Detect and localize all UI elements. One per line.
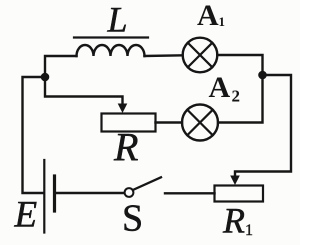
node: right junction dot bbox=[258, 71, 267, 80]
resistor R1 (rheostat box) bbox=[215, 186, 264, 202]
svg-text:L: L bbox=[107, 0, 128, 40]
battery E: long plate bbox=[43, 160, 45, 233]
svg-text:S: S bbox=[122, 198, 143, 240]
wire: lamp A1 to right elbow, down right side to lamp A2 bbox=[217, 55, 262, 123]
battery E: short thick plate bbox=[53, 176, 56, 211]
arrowhead onto R slider bbox=[118, 104, 128, 114]
switch S: lever bbox=[133, 177, 161, 190]
switch S: pivot circle bbox=[125, 188, 134, 197]
wire: battery to switch bbox=[57, 192, 124, 194]
wire: upper-left elbow from node A up to inductor bbox=[45, 56, 77, 77]
svg-text:1: 1 bbox=[219, 14, 226, 29]
svg-text:R: R bbox=[113, 125, 138, 170]
resistor R (rheostat box) bbox=[102, 114, 156, 132]
svg-text:A: A bbox=[197, 0, 219, 32]
wire: coil to lamp A1 bbox=[145, 54, 183, 57]
wire: switch to R1 bbox=[165, 192, 215, 194]
wire: left node down and right to rheostat R arrow bbox=[45, 77, 123, 105]
overline above inductor bbox=[74, 36, 148, 38]
svg-text:1: 1 bbox=[245, 222, 253, 239]
wire: R box to lamp A2 bbox=[156, 121, 183, 123]
lamp A2 (circle with X) bbox=[182, 105, 218, 141]
wire: right dot across and down to R1 arrow bbox=[235, 75, 291, 178]
inductor L (4-hump coil) bbox=[77, 45, 145, 56]
wire: left vertical from left node down to battery bbox=[23, 77, 46, 193]
svg-text:A: A bbox=[209, 71, 231, 104]
arrowhead onto R1 slider bbox=[230, 176, 240, 186]
svg-text:2: 2 bbox=[232, 87, 241, 106]
svg-text:R: R bbox=[222, 201, 245, 241]
lamp A1 (circle with X) bbox=[183, 38, 218, 73]
svg-text:E: E bbox=[14, 195, 38, 236]
node: left junction dot bbox=[41, 73, 50, 82]
